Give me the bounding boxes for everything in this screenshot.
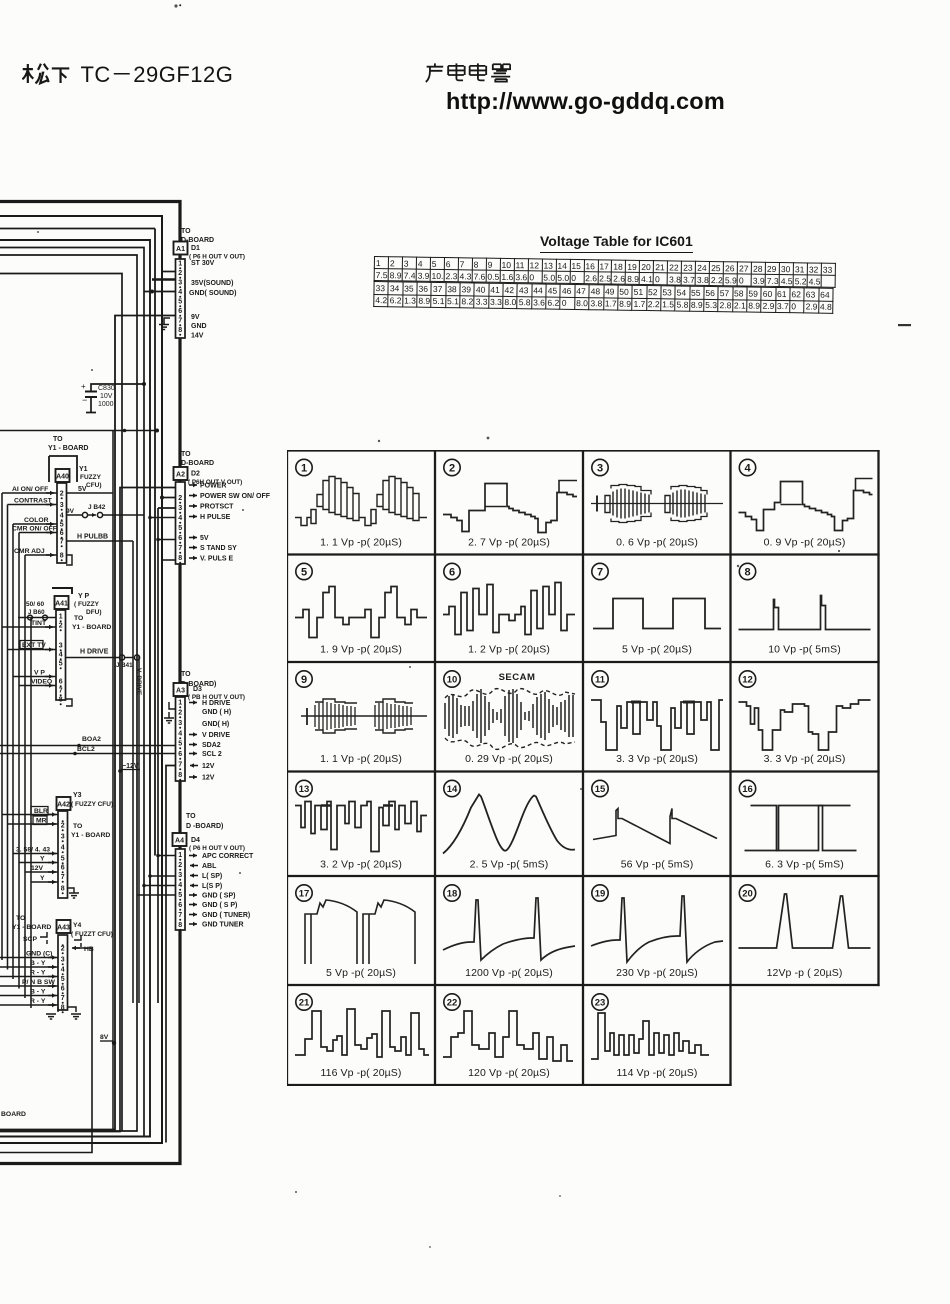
waveform cell 18 — [443, 885, 575, 979]
wire left feed v1 — [1, 493, 3, 960]
waveform cell 17 — [296, 885, 415, 979]
capacitor C830 — [81, 382, 146, 413]
waveform cell 14 — [443, 780, 575, 870]
header model name — [22, 57, 233, 89]
connector A41 TO Y1-BOARD — [20, 588, 142, 706]
waveform cell 11 — [591, 671, 723, 765]
connector A40 TO Y1-BOARD — [12, 436, 144, 565]
ground near A3 pin3 — [169, 702, 175, 718]
waveform cell 16 — [739, 780, 856, 870]
connector A2 TO D-BOARD — [174, 4, 271, 564]
connector A43 TO Y1-BOARD — [12, 915, 113, 1019]
jumper JB42 — [82, 512, 87, 517]
waveform cell 7 — [592, 563, 721, 655]
wire bus L3 to A1 pin3 — [0, 229, 155, 856]
wire A2 pin2 feed — [162, 497, 176, 499]
wire bus L2 — [0, 216, 162, 1143]
voltage table title — [540, 233, 693, 253]
waveform cell 3 — [591, 459, 723, 548]
wire A2 pin1 POWER feed — [0, 488, 176, 1132]
waveform cell 23 — [591, 994, 709, 1079]
waveform cell 5 — [295, 563, 427, 655]
wire bus L7 — [0, 274, 122, 1132]
wire left feed v3 — [12, 524, 14, 979]
wire bus L5 to A1 pin4 — [0, 248, 176, 1137]
waveform cell 9 — [296, 671, 427, 765]
waveform cell 4 — [739, 459, 873, 548]
wire V-drive vertical x139 — [138, 656, 140, 1003]
waveform grid — [287, 450, 880, 1086]
label BCL2 wire — [0, 753, 176, 755]
connector A1 TO D-BOARD — [159, 228, 245, 340]
waveform cell 8 — [739, 563, 871, 655]
waveform grid borders — [287, 451, 879, 1086]
connector A3 TO D-BOARD — [164, 671, 245, 782]
wire horizontal mid — [0, 430, 157, 432]
wire left feed v5 — [24, 555, 26, 998]
header url — [446, 88, 725, 115]
waveform cell 12 — [739, 671, 871, 765]
waveform cell 19 — [591, 885, 723, 979]
jumper JB41 — [119, 655, 124, 660]
waveform cell 2 — [443, 459, 577, 548]
wire bundle vertical x161 branch A2 pin8 — [161, 559, 176, 561]
wire bus L4 — [0, 240, 150, 1137]
wire left feed v4 — [18, 533, 20, 989]
connector A4 TO D-BOARD — [173, 813, 255, 931]
wire stubs A42 — [2, 815, 58, 883]
header site name chinese — [425, 61, 511, 89]
waveform cell 6 — [443, 563, 575, 655]
waveform cell 22 — [443, 994, 573, 1079]
wire 9V line to A1 pin7 — [0, 316, 176, 1130]
wire main thick bus L — [0, 202, 180, 1164]
jumper JB60 — [28, 615, 33, 620]
wire stubs A43 — [0, 958, 58, 1006]
wire x92 HB run — [0, 948, 92, 1153]
voltage table for IC601 — [373, 256, 836, 314]
wire left feed v2 — [7, 505, 9, 970]
wire A2 pin4 pin6 feeds — [150, 518, 176, 540]
label BOA2 wire — [0, 745, 176, 747]
wire bus L6 — [0, 255, 137, 1131]
connector A42 TO Y1-BOARD — [16, 792, 113, 898]
wire H-drive vertical x133 — [132, 541, 134, 1003]
wire 8V branch vertical — [112, 431, 114, 1130]
waveform cell 15 — [592, 780, 717, 870]
waveform cell 20 — [739, 885, 871, 979]
waveform cell 1 — [295, 459, 427, 548]
wire stubs A41 — [2, 618, 56, 686]
waveform cell 21 — [295, 994, 429, 1079]
wire left feed v6 — [30, 618, 32, 1009]
wire stubs A40 — [2, 493, 57, 555]
waveform cell 10 — [444, 671, 575, 765]
ground near A1 pin8 — [164, 318, 170, 325]
wire bundle vertical x158 — [158, 508, 176, 1003]
wire bundle vertical x166 to A3 — [166, 766, 176, 1143]
wire A4 pin feeds — [137, 856, 176, 896]
waveform cell 13 — [295, 780, 427, 870]
